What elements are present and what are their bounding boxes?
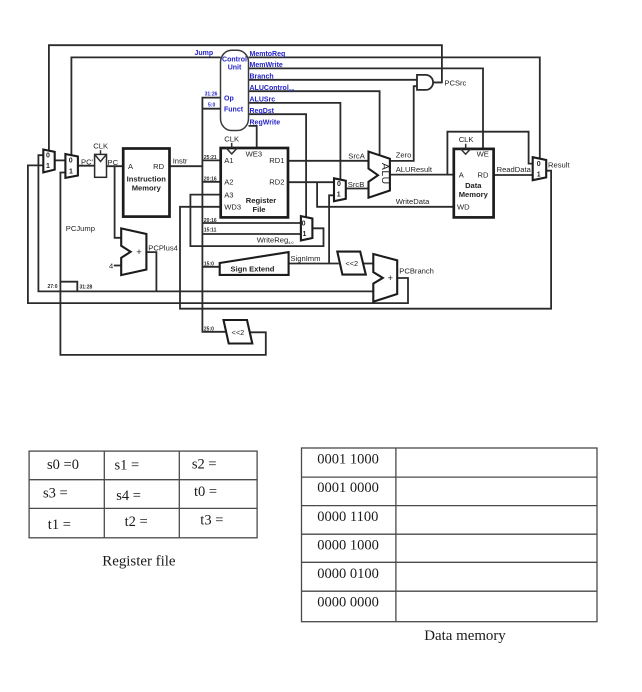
svg-text:Op: Op bbox=[224, 95, 234, 102]
svg-text:Unit: Unit bbox=[228, 65, 242, 72]
wire 4 constant stub bbox=[114, 265, 121, 267]
svg-text:PCBranch: PCBranch bbox=[399, 267, 434, 276]
wire WriteReg loop back to A3 bbox=[190, 195, 323, 247]
wire Instr 20:16 to A2 bbox=[202, 181, 220, 183]
svg-text:s1 =: s1 = bbox=[115, 458, 140, 474]
wire ALUResult to Data Memory A bbox=[390, 174, 454, 176]
data memory bbox=[454, 149, 494, 218]
svg-text:File: File bbox=[252, 205, 265, 214]
svg-text:SrcB: SrcB bbox=[348, 180, 364, 189]
register file bbox=[221, 148, 288, 217]
wire ALUControl to ALU bbox=[249, 91, 380, 155]
svg-text:A2: A2 bbox=[224, 178, 233, 187]
svg-text:5:0: 5:0 bbox=[208, 103, 215, 109]
svg-text:Data memory: Data memory bbox=[424, 628, 506, 644]
svg-text:t1 =: t1 = bbox=[48, 517, 71, 533]
svg-text:CLK: CLK bbox=[459, 135, 474, 144]
svg-text:PC: PC bbox=[108, 158, 119, 167]
wire Branch to AND gate bbox=[249, 79, 418, 81]
svg-text:25:0: 25:0 bbox=[204, 326, 214, 332]
wire MemWrite to Data Memory WE bbox=[249, 68, 484, 148]
svg-text:WriteData: WriteData bbox=[396, 197, 430, 206]
svg-text:1: 1 bbox=[537, 172, 541, 179]
mux PCSrc (0 PCPlus4 / 1 PCBranch) bbox=[43, 150, 54, 173]
svg-text:ALU: ALU bbox=[379, 163, 391, 185]
wire PCPlus4 rail mux1 input0 bbox=[38, 155, 374, 292]
svg-text:Zero: Zero bbox=[396, 151, 412, 160]
svg-text:RD: RD bbox=[153, 162, 164, 171]
svg-text:ALUSrc: ALUSrc bbox=[250, 97, 276, 104]
svg-text:ALUResult: ALUResult bbox=[396, 165, 433, 174]
wire PCBranch mux1 input1 bbox=[28, 165, 408, 303]
svg-text:0000 1100: 0000 1100 bbox=[317, 509, 378, 525]
svg-text:0000 1000: 0000 1000 bbox=[317, 537, 379, 553]
svg-text:RD: RD bbox=[478, 170, 489, 179]
svg-text:Memory: Memory bbox=[459, 190, 489, 199]
svg-text:CLK: CLK bbox=[224, 134, 239, 143]
svg-text:RD2: RD2 bbox=[269, 178, 284, 187]
svg-text:PCPlus4: PCPlus4 bbox=[148, 244, 178, 253]
svg-text:Result: Result bbox=[548, 160, 570, 169]
svg-text:WE3: WE3 bbox=[246, 150, 262, 159]
svg-text:0: 0 bbox=[69, 157, 73, 164]
clock triangle data memory bbox=[461, 149, 471, 154]
wire mux1 to mux2 bbox=[55, 159, 66, 161]
svg-text:Data: Data bbox=[465, 181, 482, 190]
wire WriteData from RD2 tap to Data Memory WD bbox=[317, 182, 454, 207]
wire Result to bottom rail and WD3 bbox=[180, 171, 551, 309]
svg-text:PC′: PC′ bbox=[81, 157, 94, 166]
wire jump 31:28 tap step bbox=[60, 282, 77, 292]
sign extend bbox=[220, 252, 289, 275]
svg-text:t2 =: t2 = bbox=[125, 514, 148, 530]
svg-text:0001 1000: 0001 1000 bbox=[317, 451, 379, 467]
svg-text:SignImm: SignImm bbox=[291, 254, 321, 263]
shifter <<2 jump bbox=[224, 320, 253, 344]
wire ALUResult bypass to Result mux input0 bbox=[447, 132, 532, 175]
svg-text:15:11: 15:11 bbox=[204, 228, 217, 234]
mux SrcB (ALUSrc) bbox=[334, 178, 346, 201]
register PC bbox=[95, 154, 107, 177]
svg-text:MemtoReg: MemtoReg bbox=[250, 51, 286, 58]
svg-text:0: 0 bbox=[537, 161, 541, 168]
wire RegWrite to Register File WE3 bbox=[249, 126, 257, 148]
wire PCPlus4 adder output bbox=[146, 252, 156, 291]
ALU U2 bbox=[369, 152, 390, 198]
svg-text:20:16: 20:16 bbox=[204, 218, 217, 224]
svg-text:31:26: 31:26 bbox=[205, 92, 218, 98]
svg-text:A3: A3 bbox=[224, 190, 233, 199]
wire SrcB mux output to ALU bbox=[346, 188, 369, 190]
svg-text:Memory: Memory bbox=[132, 183, 162, 192]
svg-text:WD3: WD3 bbox=[224, 203, 241, 212]
svg-text:0: 0 bbox=[302, 221, 306, 228]
svg-text:s2 =: s2 = bbox=[192, 457, 217, 473]
adder PCBranch bbox=[373, 254, 397, 302]
svg-text:Sign Extend: Sign Extend bbox=[231, 264, 275, 273]
svg-text:0000 0100: 0000 0100 bbox=[317, 566, 379, 582]
svg-text:t0 =: t0 = bbox=[194, 484, 217, 500]
wire Instr 15:11 to WriteReg mux input1 bbox=[202, 233, 301, 235]
mux Result (MemtoReg) bbox=[533, 157, 547, 180]
svg-text:<<2: <<2 bbox=[345, 259, 358, 268]
wire SignImm from Sign Extend to shift and SrcB mux input1 bbox=[289, 263, 339, 265]
svg-text:1: 1 bbox=[69, 168, 73, 175]
wire MemtoReg to Result mux select bbox=[249, 57, 540, 158]
svg-text:0: 0 bbox=[337, 181, 341, 188]
control unit U1 bbox=[221, 50, 249, 130]
svg-text:25:21: 25:21 bbox=[204, 155, 217, 161]
svg-text:RD1: RD1 bbox=[269, 156, 284, 165]
clock triangle register file bbox=[226, 148, 237, 154]
svg-text:Jump: Jump bbox=[195, 50, 214, 57]
wire Jump from control unit to PC-jump mux select bbox=[71, 57, 220, 155]
svg-text:1: 1 bbox=[46, 163, 50, 170]
svg-text:RegWrite: RegWrite bbox=[250, 120, 281, 127]
svg-text:t3 =: t3 = bbox=[200, 512, 223, 528]
wire SrcA from RD1 to ALU bbox=[288, 160, 369, 162]
svg-text:15:0: 15:0 bbox=[204, 261, 214, 267]
wire AND output to PCSrc rail (junction) bbox=[433, 81, 442, 83]
wire RegDst to WriteReg mux select bbox=[249, 114, 307, 217]
wire shift2 branch output to branch adder bbox=[363, 263, 373, 265]
svg-text:Register file: Register file bbox=[102, 554, 176, 570]
svg-text:CLK: CLK bbox=[93, 142, 108, 151]
wire RD2 to SrcB mux input0 bbox=[288, 181, 334, 183]
svg-text:1: 1 bbox=[302, 231, 306, 238]
svg-text:4: 4 bbox=[109, 261, 113, 270]
register value table bbox=[29, 451, 257, 538]
svg-text:RegDst: RegDst bbox=[250, 108, 275, 115]
wire Instr 20:16 to WriteReg mux input0 bbox=[202, 222, 301, 224]
svg-text:s3 =: s3 = bbox=[43, 486, 68, 502]
wire PC' into PC register bbox=[78, 165, 95, 167]
svg-text:Instruction: Instruction bbox=[127, 174, 167, 183]
wire PCSrc top rail bbox=[49, 45, 442, 151]
svg-text:A1: A1 bbox=[224, 156, 233, 165]
wire Instr from Instruction Memory to riser bbox=[170, 165, 203, 167]
svg-text:ALUControl2:0: ALUControl2:0 bbox=[250, 85, 295, 93]
wire PCJump vertical to jump mux input1 bbox=[60, 173, 265, 355]
wire Instr 15:0 to Sign Extend bbox=[202, 266, 219, 268]
wire Instr 25:21 to A1 bbox=[202, 159, 220, 161]
data memory table bbox=[302, 448, 598, 622]
svg-text:1: 1 bbox=[337, 192, 341, 199]
svg-text:Control: Control bbox=[222, 56, 247, 63]
svg-text:Instr: Instr bbox=[173, 157, 188, 166]
svg-text:s0 =0: s0 =0 bbox=[47, 457, 79, 473]
svg-text:PCJump: PCJump bbox=[66, 224, 95, 233]
adder PCPlus4 bbox=[121, 228, 146, 275]
svg-text:MemWrite: MemWrite bbox=[250, 62, 283, 69]
wire ALUSrc to SrcB mux select bbox=[249, 103, 341, 180]
svg-text:PCSrc: PCSrc bbox=[444, 78, 466, 87]
svg-text:ReadData: ReadData bbox=[497, 165, 532, 174]
wire ReadData to Result mux input1 bbox=[494, 174, 533, 176]
svg-text:0000 0000: 0000 0000 bbox=[317, 595, 379, 611]
wire PC to Instruction Memory with PCPlus4 tap bbox=[107, 165, 124, 167]
svg-text:WE: WE bbox=[477, 150, 489, 159]
mux WriteReg (RegDst) bbox=[301, 216, 313, 240]
AND gate PCSrc bbox=[417, 75, 433, 90]
clock tick PC bbox=[100, 150, 102, 154]
wire Funct stub bbox=[202, 108, 220, 110]
instruction memory bbox=[123, 149, 169, 217]
svg-text:20:16: 20:16 bbox=[204, 176, 217, 182]
svg-text:s4 =: s4 = bbox=[116, 488, 141, 504]
shifter <<2 branch bbox=[337, 252, 366, 275]
svg-text:+: + bbox=[136, 247, 142, 258]
svg-text:WriteReg4:0: WriteReg4:0 bbox=[257, 235, 294, 245]
svg-text:31:28: 31:28 bbox=[80, 284, 93, 290]
svg-text:Register: Register bbox=[246, 196, 276, 205]
mux Jump (0 / 1 PCJump) bbox=[65, 154, 78, 178]
svg-text:0001 0000: 0001 0000 bbox=[317, 480, 379, 496]
svg-text:<<2: <<2 bbox=[232, 328, 245, 337]
svg-text:Funct: Funct bbox=[224, 107, 244, 114]
svg-text:WD: WD bbox=[457, 203, 470, 212]
wire Zero from ALU to AND gate bbox=[390, 86, 417, 161]
svg-text:Branch: Branch bbox=[250, 74, 274, 81]
svg-text:+: + bbox=[388, 273, 394, 284]
wire Op Funct riser from Instr bus to Control Unit bbox=[202, 98, 226, 332]
svg-text:0: 0 bbox=[46, 153, 50, 160]
svg-text:SrcA: SrcA bbox=[348, 152, 365, 161]
svg-text:27:0: 27:0 bbox=[48, 284, 58, 290]
